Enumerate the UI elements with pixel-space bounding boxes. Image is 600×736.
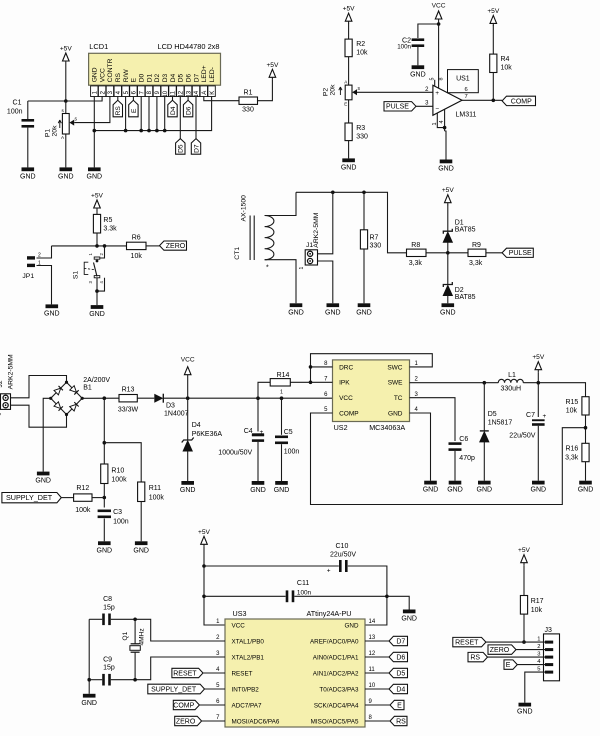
svg-text:R6: R6 [132, 234, 141, 241]
svg-text:10: 10 [369, 683, 376, 689]
svg-text:+5V: +5V [487, 8, 500, 15]
svg-text:MISO/ADC5/PA5: MISO/ADC5/PA5 [311, 718, 359, 725]
svg-text:E: E [131, 108, 138, 113]
svg-text:8: 8 [439, 78, 445, 81]
svg-text:+5V: +5V [532, 354, 545, 361]
svg-text:D5: D5 [396, 670, 405, 677]
svg-text:RS: RS [115, 106, 122, 116]
svg-text:R1: R1 [244, 89, 253, 96]
svg-text:14: 14 [194, 90, 200, 97]
svg-text:ZERO: ZERO [490, 647, 510, 654]
svg-text:D1: D1 [455, 220, 464, 227]
svg-text:D5: D5 [178, 73, 185, 82]
svg-text:RESET: RESET [455, 640, 479, 647]
svg-text:10k: 10k [356, 50, 368, 57]
svg-text:22u/50V: 22u/50V [509, 432, 535, 439]
svg-text:D3: D3 [162, 73, 169, 82]
svg-text:RESET: RESET [173, 670, 197, 677]
svg-text:GND: GND [356, 309, 372, 316]
svg-text:100n: 100n [284, 448, 300, 455]
svg-text:+5V: +5V [91, 193, 104, 200]
svg-text:330: 330 [356, 134, 368, 141]
svg-text:INT0/PB2: INT0/PB2 [232, 686, 260, 693]
svg-text:11: 11 [369, 667, 376, 673]
svg-text:ATtiny24A-PU: ATtiny24A-PU [307, 609, 352, 618]
svg-text:12: 12 [369, 651, 376, 657]
svg-text:2: 2 [38, 253, 41, 259]
svg-text:CT1: CT1 [234, 247, 241, 260]
svg-text:13: 13 [369, 635, 376, 641]
svg-text:GND: GND [87, 173, 103, 180]
svg-text:C8: C8 [103, 596, 112, 603]
svg-text:330uH: 330uH [500, 386, 521, 393]
svg-text:R13: R13 [122, 387, 135, 394]
svg-text:LCD1: LCD1 [89, 42, 108, 51]
svg-text:ZERO: ZERO [176, 718, 196, 725]
svg-text:BAT85: BAT85 [455, 294, 476, 301]
svg-text:15p: 15p [103, 664, 115, 671]
svg-text:D4: D4 [170, 106, 177, 115]
svg-text:L1: L1 [508, 372, 516, 379]
svg-text:330: 330 [370, 243, 382, 250]
svg-text:GND: GND [531, 487, 547, 494]
svg-text:1N4007: 1N4007 [164, 411, 189, 418]
svg-text:ARK2-5MM: ARK2-5MM [313, 212, 320, 247]
svg-text:20k: 20k [52, 125, 59, 137]
svg-text:K: K [210, 91, 216, 95]
svg-text:R14: R14 [277, 372, 290, 379]
svg-text:D6: D6 [186, 106, 193, 115]
svg-text:100n: 100n [7, 109, 23, 116]
svg-text:B1: B1 [83, 385, 92, 392]
svg-text:D7: D7 [396, 638, 405, 645]
svg-text:GND: GND [423, 487, 439, 494]
svg-text:+5V: +5V [60, 46, 73, 53]
svg-text:R16: R16 [565, 446, 578, 453]
svg-text:10k: 10k [501, 65, 513, 72]
svg-text:1000u/50V: 1000u/50V [218, 450, 252, 457]
svg-text:C9: C9 [103, 656, 112, 663]
svg-text:+5V: +5V [266, 62, 279, 69]
svg-text:GND: GND [345, 622, 359, 629]
svg-text:D4: D4 [192, 422, 201, 429]
svg-text:GND: GND [44, 310, 60, 317]
svg-text:E: E [344, 102, 347, 107]
svg-text:C3: C3 [113, 509, 122, 516]
svg-text:D3: D3 [166, 403, 175, 410]
svg-text:R15: R15 [565, 399, 578, 406]
svg-text:J3: J3 [545, 627, 553, 634]
svg-text:2A/200V: 2A/200V [83, 377, 110, 384]
svg-text:+: + [435, 90, 439, 97]
svg-text:SUPPLY_DET: SUPPLY_DET [151, 686, 197, 693]
svg-text:D6: D6 [396, 654, 405, 661]
svg-text:R17: R17 [531, 598, 544, 605]
svg-text:GND: GND [89, 311, 105, 318]
svg-text:+: + [543, 413, 547, 420]
svg-text:GND: GND [477, 487, 493, 494]
svg-text:GND: GND [58, 173, 74, 180]
svg-text:22u/50V: 22u/50V [330, 551, 356, 558]
svg-text:−: − [435, 106, 439, 113]
svg-text:R3: R3 [356, 125, 365, 132]
svg-text:ZERO: ZERO [166, 243, 186, 250]
svg-text:10k: 10k [531, 607, 543, 614]
svg-text:GND: GND [20, 173, 36, 180]
svg-text:R4: R4 [501, 56, 510, 63]
svg-text:3,3k: 3,3k [409, 260, 423, 267]
svg-text:GND: GND [438, 166, 454, 173]
svg-text:TC: TC [394, 395, 403, 402]
svg-text:D6: D6 [185, 73, 192, 82]
svg-text:GND: GND [517, 709, 533, 716]
svg-text:6: 6 [465, 87, 468, 93]
svg-text:LED+: LED+ [201, 65, 208, 82]
svg-text:R10: R10 [111, 467, 124, 474]
svg-text:GND: GND [325, 309, 341, 316]
svg-text:ARK2-5MM: ARK2-5MM [8, 354, 15, 389]
svg-text:XTAL2/PB1: XTAL2/PB1 [232, 654, 265, 661]
svg-text:C5: C5 [284, 429, 293, 436]
svg-text:COMP: COMP [511, 98, 532, 105]
svg-text:R2: R2 [356, 41, 365, 48]
svg-text:GND: GND [133, 547, 149, 554]
svg-text:GND: GND [341, 164, 357, 171]
svg-text:GND: GND [81, 700, 97, 707]
svg-text:GND: GND [388, 410, 403, 417]
svg-text:US2: US2 [334, 423, 348, 432]
svg-text:+5V: +5V [518, 547, 531, 554]
svg-text:+: + [327, 568, 331, 575]
svg-text:A: A [202, 91, 208, 95]
svg-text:US3: US3 [233, 609, 247, 618]
svg-text:IPK: IPK [339, 380, 350, 387]
svg-text:GND: GND [447, 487, 463, 494]
svg-text:D1: D1 [146, 73, 153, 82]
svg-text:GND: GND [250, 487, 266, 494]
svg-text:GND: GND [410, 71, 426, 78]
svg-text:PULSE: PULSE [509, 250, 532, 257]
svg-text:100k: 100k [75, 507, 91, 514]
svg-text:E: E [131, 77, 138, 82]
svg-text:330: 330 [242, 107, 254, 114]
svg-text:SWE: SWE [388, 380, 403, 387]
svg-text:T0/ADC3/PA3: T0/ADC3/PA3 [319, 686, 359, 693]
svg-text:R9: R9 [472, 242, 481, 249]
svg-text:GND: GND [440, 309, 456, 316]
svg-text:3,3k: 3,3k [565, 454, 579, 461]
svg-text:1: 1 [299, 267, 305, 270]
svg-text:5: 5 [429, 78, 435, 81]
svg-text:D5: D5 [488, 411, 497, 418]
svg-text:COMP: COMP [339, 410, 359, 417]
svg-text:RS: RS [470, 655, 480, 662]
svg-text:10k: 10k [131, 253, 143, 260]
svg-text:R12: R12 [76, 485, 89, 492]
svg-text:10: 10 [163, 90, 169, 97]
svg-text:R8: R8 [411, 242, 420, 249]
svg-text:RS: RS [115, 72, 122, 82]
svg-text:GND: GND [92, 67, 99, 82]
svg-text:D4: D4 [170, 73, 177, 82]
svg-text:D0: D0 [139, 73, 146, 82]
svg-text:AX-1500: AX-1500 [241, 195, 248, 222]
svg-text:R/W: R/W [123, 69, 130, 83]
svg-text:7: 7 [465, 94, 468, 100]
svg-text:14: 14 [369, 619, 376, 625]
svg-text:+: + [260, 429, 264, 436]
svg-text:AREF/ADC0/PA0: AREF/ADC0/PA0 [310, 638, 359, 645]
svg-text:VCC: VCC [232, 622, 246, 629]
svg-text:D7: D7 [193, 144, 200, 153]
svg-text:P2: P2 [323, 88, 330, 97]
svg-text:E: E [397, 702, 402, 709]
svg-text:C4: C4 [244, 428, 253, 435]
svg-text:GND: GND [97, 547, 113, 554]
svg-text:+5V: +5V [442, 187, 455, 194]
svg-text:AIN0/ADC1/PA1: AIN0/ADC1/PA1 [313, 654, 359, 661]
svg-text:MC34063A: MC34063A [369, 423, 405, 432]
svg-text:ADC7/PA7: ADC7/PA7 [232, 702, 262, 709]
svg-text:GND: GND [288, 309, 304, 316]
svg-text:J2: J2 [0, 380, 4, 387]
svg-text:D4: D4 [396, 686, 405, 693]
svg-text:3.3k: 3.3k [103, 226, 117, 233]
svg-text:15p: 15p [103, 604, 115, 611]
svg-text:E: E [506, 662, 511, 669]
svg-text:GND: GND [274, 487, 290, 494]
svg-text:3,3k: 3,3k [469, 260, 483, 267]
svg-text:C1: C1 [13, 100, 22, 107]
svg-text:4MHz: 4MHz [139, 628, 146, 645]
svg-text:RS: RS [396, 718, 406, 725]
svg-text:12: 12 [179, 90, 185, 97]
svg-text:1: 1 [280, 390, 283, 396]
svg-text:R11: R11 [149, 485, 161, 492]
svg-text:VCC: VCC [432, 3, 446, 10]
svg-text:C11: C11 [297, 580, 309, 587]
svg-text:C6: C6 [459, 436, 468, 443]
svg-text:20k: 20k [330, 84, 337, 96]
svg-text:PULSE: PULSE [386, 104, 409, 111]
svg-text:1: 1 [38, 260, 41, 266]
svg-text:R5: R5 [103, 217, 112, 224]
svg-text:4: 4 [439, 121, 445, 124]
svg-text:SUPPLY_DET: SUPPLY_DET [6, 493, 53, 502]
svg-text:100n: 100n [397, 44, 411, 51]
svg-text:100k: 100k [149, 495, 165, 502]
svg-text:BAT85: BAT85 [455, 227, 476, 234]
svg-text:R7: R7 [370, 235, 379, 242]
svg-text:VCC: VCC [99, 68, 106, 82]
svg-text:GND: GND [578, 487, 594, 494]
svg-text:1: 1 [432, 123, 438, 126]
svg-text:*: * [266, 265, 269, 272]
svg-text:C7: C7 [526, 412, 535, 419]
svg-text:RESET: RESET [232, 670, 253, 677]
svg-text:C10: C10 [336, 543, 349, 550]
svg-text:LED-: LED- [209, 67, 216, 82]
svg-text:CONTR: CONTR [107, 58, 114, 82]
svg-text:GND: GND [35, 478, 51, 485]
svg-text:VCC: VCC [339, 395, 353, 402]
svg-text:1N5817: 1N5817 [488, 419, 513, 426]
svg-text:Q1: Q1 [122, 631, 129, 640]
svg-text:100n: 100n [297, 590, 312, 597]
svg-text:LM311: LM311 [456, 111, 477, 118]
svg-text:+5V: +5V [198, 529, 211, 536]
svg-text:COMP: COMP [173, 702, 194, 709]
svg-text:13: 13 [186, 90, 192, 97]
svg-text:470p: 470p [459, 455, 475, 462]
svg-text:XTAL1/PB0: XTAL1/PB0 [232, 638, 265, 645]
svg-text:VCC: VCC [181, 357, 195, 364]
svg-text:D5: D5 [178, 144, 185, 153]
svg-text:JP1: JP1 [22, 273, 34, 280]
svg-text:GND: GND [180, 487, 196, 494]
svg-text:GND: GND [401, 616, 417, 623]
svg-text:LCD HD44780 2x8: LCD HD44780 2x8 [157, 42, 219, 51]
svg-text:1: 1 [0, 413, 3, 416]
svg-text:P1: P1 [45, 129, 52, 138]
svg-text:D2: D2 [455, 287, 464, 294]
svg-text:AIN1/ADC2/PA2: AIN1/ADC2/PA2 [313, 670, 359, 677]
svg-text:SWC: SWC [387, 364, 402, 371]
svg-text:S1: S1 [73, 271, 80, 280]
svg-text:D2: D2 [154, 73, 161, 82]
svg-text:SCK/ADC4/PA4: SCK/ADC4/PA4 [314, 702, 359, 709]
svg-text:MOSI/ADC6/PA6: MOSI/ADC6/PA6 [232, 718, 280, 725]
svg-text:US1: US1 [456, 76, 470, 83]
svg-text:33/3W: 33/3W [118, 407, 139, 414]
svg-text:DRC: DRC [339, 364, 353, 371]
svg-text:100n: 100n [113, 519, 129, 526]
svg-text:10k: 10k [566, 408, 578, 415]
svg-text:D7: D7 [193, 73, 200, 82]
svg-text:P6KE36A: P6KE36A [192, 431, 223, 438]
svg-text:100k: 100k [111, 476, 127, 483]
svg-text:11: 11 [171, 90, 177, 97]
svg-text:+5V: +5V [343, 6, 356, 13]
